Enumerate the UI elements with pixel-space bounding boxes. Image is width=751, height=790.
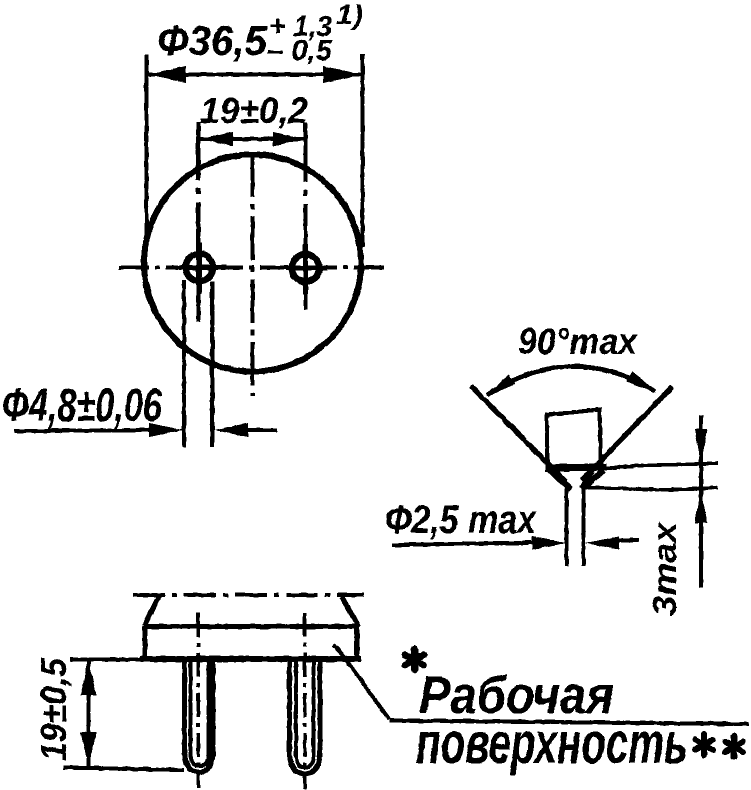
pin left inner line bbox=[191, 661, 209, 766]
dimension text 19±0,5 (rotated) bbox=[33, 657, 74, 761]
cone right line bbox=[582, 387, 672, 480]
svg-text:1): 1) bbox=[336, 0, 363, 30]
dimension text 3max (rotated) bbox=[646, 520, 683, 616]
top center line (dash-dot) of cap bbox=[133, 593, 364, 597]
dimension text 19±0,2 bbox=[200, 90, 308, 131]
svg-text:19±0,2: 19±0,2 bbox=[200, 90, 308, 131]
center line solid segment through right hole bbox=[286, 266, 327, 271]
dimension Ф36,5 extension line right bbox=[361, 54, 365, 247]
dimension 3max upper extension line bbox=[606, 463, 718, 469]
pin hole right bbox=[292, 254, 319, 281]
dimension Ф4,8 extension line left bbox=[182, 280, 186, 447]
dimension Ф4,8 extension line right bbox=[210, 282, 214, 447]
dimension Ф2,5 leader right with arrow bbox=[585, 537, 639, 550]
svg-text:Ф36,5: Ф36,5 bbox=[157, 17, 268, 64]
flange top edge bbox=[145, 624, 357, 629]
dimension 3max dimension line lower with arrow bbox=[695, 490, 708, 523]
pin left center line (side view) bbox=[197, 613, 201, 788]
cone funnel top line bbox=[548, 467, 607, 489]
svg-text:– 0,5: – 0,5 bbox=[267, 35, 333, 67]
double asterisk marker after text bbox=[695, 734, 743, 757]
pin right inner line bbox=[296, 661, 314, 768]
angle text 90°max bbox=[518, 321, 638, 362]
svg-text:19±0,5: 19±0,5 bbox=[33, 657, 74, 761]
svg-text:поверхность: поверхность bbox=[416, 711, 688, 776]
pin hole right center line bbox=[304, 122, 308, 310]
pin hole left bbox=[186, 254, 213, 281]
dimension 19±0,5 bottom extension line bbox=[64, 768, 184, 771]
pin shaft right edge bbox=[582, 488, 586, 566]
dimension Ф4,8 leader left with arrow bbox=[14, 423, 183, 437]
dimension 19±0,5 top extension line bbox=[70, 658, 144, 662]
dimension 19±0,5 dimension line with arrows bbox=[81, 661, 97, 767]
dimension Ф4,8 leader right with arrow bbox=[214, 423, 277, 437]
cap right slant bbox=[342, 597, 359, 627]
angle arc 90° with arrows bbox=[486, 366, 656, 396]
svg-text:90°max: 90°max bbox=[518, 321, 638, 362]
pin hole left center line bbox=[198, 122, 199, 322]
pin right outer outline bbox=[290, 661, 321, 774]
flange right edge bbox=[355, 627, 360, 660]
dimension Ф36,5 dimension line with arrows bbox=[147, 66, 363, 83]
svg-text:3max: 3max bbox=[646, 520, 683, 616]
cone funnel left slant bbox=[552, 472, 571, 489]
flange bottom edge bbox=[140, 656, 361, 662]
svg-text:Ф2,5 max: Ф2,5 max bbox=[385, 498, 537, 542]
cone left line bbox=[471, 386, 566, 482]
dimension Ф2,5 leader left with arrow bbox=[392, 537, 566, 550]
svg-text:Ф4,8±0,06: Ф4,8±0,06 bbox=[2, 379, 162, 431]
flange left edge bbox=[143, 627, 148, 660]
pin blank rectangle bbox=[547, 410, 602, 470]
tolerance text +1,3 bbox=[269, 11, 332, 43]
dimension text Ф4,8±0,06 bbox=[2, 379, 162, 431]
footnote marker 1) bbox=[336, 0, 363, 30]
note text поверхность bbox=[416, 711, 688, 776]
center line solid segment through left hole bbox=[179, 265, 226, 270]
dimension Ф36,5 extension line left bbox=[145, 54, 149, 247]
flange outline circle (top view) bbox=[144, 155, 361, 372]
cap left slant bbox=[144, 596, 159, 627]
dimension 3max dimension line upper with arrow bbox=[695, 415, 708, 588]
asterisk marker before text bbox=[405, 649, 424, 670]
dimension text Ф36,5 bbox=[157, 17, 268, 64]
dimension 3max lower extension line bbox=[585, 488, 718, 490]
pin right center line (side view) bbox=[303, 613, 307, 789]
tolerance text -0,5 bbox=[267, 35, 333, 67]
dimension 19±0,2 dimension line with arrows bbox=[200, 132, 306, 146]
pin left outer outline bbox=[185, 661, 214, 772]
pin shaft left edge bbox=[565, 488, 569, 566]
leader line to working surface bbox=[333, 645, 749, 724]
dimension text Ф2,5max bbox=[385, 498, 537, 542]
note text Рабочая bbox=[419, 666, 614, 725]
vertical center line bbox=[251, 153, 255, 396]
horizontal center line bbox=[119, 266, 385, 270]
cone funnel right slant bbox=[582, 471, 604, 490]
